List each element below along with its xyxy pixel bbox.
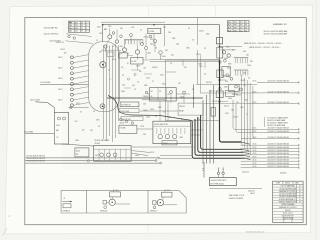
svg-text:281: 281 [240, 22, 243, 24]
wire [204, 61, 206, 68]
wire [137, 45, 139, 50]
wire [107, 201, 110, 203]
wire end tick [298, 147, 300, 149]
svg-text:28-151: 28-151 [60, 49, 65, 51]
svg-text:2815: 2815 [234, 30, 238, 32]
svg-text:28-1: 28-1 [75, 121, 78, 123]
svg-text:28-152: 28-152 [196, 54, 201, 56]
svg-text:WD-52G 4014-511 AIRPLANE: WD-52G 4014-511 AIRPLANE [264, 32, 288, 35]
svg-text:ASSEMBLY NO: ASSEMBLY NO [273, 23, 287, 26]
terminal [224, 59, 227, 62]
svg-text:28-15: 28-15 [58, 89, 62, 91]
table rule [84, 21, 86, 32]
svg-text:28-1524 TO 28-406 GEN-28: 28-1524 TO 28-406 GEN-28 [268, 156, 289, 158]
terminal [134, 73, 136, 75]
connector bar [234, 57, 248, 59]
drop wire [200, 55, 202, 93]
wire [140, 110, 178, 112]
svg-text:28: 28 [245, 22, 247, 24]
relay K2 [131, 58, 143, 64]
svg-text:28: 28 [192, 89, 194, 91]
splice box [162, 141, 177, 145]
wire [106, 39, 110, 45]
title rule [273, 205, 304, 207]
pin [184, 128, 186, 134]
svg-text:28: 28 [245, 25, 247, 27]
divider [94, 148, 131, 150]
svg-text:281: 281 [240, 28, 243, 30]
fan wire [73, 55, 89, 58]
motor M1 [100, 62, 106, 68]
scanner streak [315, 0, 317, 240]
svg-text:28-15: 28-15 [253, 147, 257, 149]
terminal [170, 91, 173, 94]
svg-text:28-1525 TO 28-406 GEN-28: 28-1525 TO 28-406 GEN-28 [268, 160, 289, 162]
drop wire [209, 90, 211, 164]
svg-text:2840: 2840 [206, 34, 210, 36]
terminal [73, 37, 75, 39]
svg-text:28-1520 TO 28-406 GEN-28: 28-1520 TO 28-406 GEN-28 [268, 137, 289, 139]
title rule [292, 181, 294, 184]
pin [237, 58, 239, 64]
connector bar [234, 69, 248, 71]
junction [219, 46, 221, 48]
wire [118, 52, 124, 55]
svg-text:28-40: 28-40 [147, 53, 151, 55]
terminal [226, 74, 229, 77]
wire drop [102, 25, 104, 42]
terminal T8 [70, 93, 73, 96]
bus wire [105, 45, 107, 141]
svg-text:284: 284 [250, 61, 253, 63]
pin [172, 128, 174, 134]
svg-text:28-4021-511 AIRPL: 28-4021-511 AIRPL [229, 197, 244, 200]
divider [109, 149, 111, 161]
svg-text:28-402: 28-402 [233, 117, 238, 119]
svg-text:28-4: 28-4 [176, 44, 179, 46]
terminal [141, 43, 144, 46]
wire [145, 34, 147, 47]
wire end tick [298, 157, 300, 159]
wire [131, 146, 194, 148]
relay K6 [222, 66, 230, 76]
svg-text:281: 281 [236, 102, 239, 104]
terminal [159, 51, 163, 55]
svg-text:28-1511 BAT SW: 28-1511 BAT SW [44, 27, 58, 30]
cell terminal [63, 117, 66, 120]
svg-text:28-15: 28-15 [253, 163, 257, 165]
table rule [228, 22, 249, 24]
pin [242, 70, 244, 76]
wire [167, 101, 169, 121]
svg-text:2840: 2840 [144, 85, 148, 87]
motor detail B [109, 199, 115, 205]
terminal [240, 88, 243, 91]
wire end tick [298, 131, 300, 133]
table rule [69, 29, 90, 31]
svg-text:28-40: 28-40 [75, 140, 79, 142]
motor M2 shaft [102, 106, 104, 108]
inline label box [119, 109, 139, 113]
svg-text:28: 28 [127, 63, 129, 65]
svg-text:28-4: 28-4 [132, 85, 135, 87]
svg-text:281: 281 [75, 22, 78, 24]
title rule [273, 186, 304, 188]
wire end tick [298, 144, 300, 146]
wire [137, 54, 139, 59]
curved feeder [108, 96, 192, 121]
wire [170, 93, 172, 103]
connector pin [125, 40, 127, 45]
list wire [241, 157, 299, 159]
list wire [241, 147, 299, 149]
svg-text:28: 28 [204, 74, 206, 76]
wire [40, 84, 89, 86]
svg-text:WIRE 28-1514 -- 28-1516 -- 28-: WIRE 28-1514 -- 28-1516 -- 28-1518 -- 28… [244, 43, 283, 45]
svg-text:28-40: 28-40 [224, 58, 228, 60]
feeder wire [250, 83, 252, 155]
svg-text:28-1: 28-1 [90, 130, 93, 132]
list wire [251, 92, 299, 94]
svg-text:28-15: 28-15 [253, 102, 257, 104]
wire end tick [298, 166, 300, 168]
trunk tap [219, 101, 221, 103]
strip divider [147, 190, 149, 213]
svg-text:28-15: 28-15 [253, 137, 257, 139]
svg-text:28-15: 28-15 [112, 59, 116, 61]
svg-text:284: 284 [165, 50, 168, 52]
svg-text:2840: 2840 [172, 38, 176, 40]
terminal [145, 47, 148, 50]
svg-text:28-40: 28-40 [121, 91, 125, 93]
list wire [241, 144, 299, 146]
title rule [273, 202, 304, 204]
note bracket [264, 117, 266, 127]
table rule [243, 21, 245, 32]
wire [116, 30, 118, 40]
title rule [273, 194, 304, 196]
svg-text:28-152: 28-152 [224, 106, 229, 108]
pin [168, 128, 170, 134]
svg-text:EXT PWR 28-402: EXT PWR 28-402 [211, 183, 224, 185]
wire end tick [298, 137, 300, 139]
svg-text:2840: 2840 [180, 137, 184, 139]
connector pin [136, 40, 138, 45]
svg-text:28-1514 GEN: 28-1514 GEN [41, 82, 52, 84]
terminal T10 [70, 104, 73, 107]
svg-text:28: 28 [80, 112, 82, 114]
contact [158, 134, 162, 138]
detail B relay [110, 192, 121, 197]
relay K1 [148, 28, 161, 33]
terminal [235, 85, 238, 88]
wire [115, 203, 130, 205]
junction [193, 97, 195, 99]
wire [191, 134, 200, 136]
svg-text:28-15: 28-15 [253, 91, 257, 93]
wire [164, 204, 178, 206]
contact [107, 153, 111, 157]
wire to frame [25, 132, 54, 134]
svg-text:28-1: 28-1 [116, 190, 119, 192]
svg-text:28-1516: 28-1516 [212, 101, 218, 103]
pin [164, 128, 166, 134]
svg-text:28-40: 28-40 [247, 65, 251, 67]
tap wire [220, 79, 227, 81]
wire [127, 54, 133, 56]
fan wire [73, 81, 89, 84]
svg-text:28-15: 28-15 [58, 78, 62, 80]
svg-text:28-4021-501 AIRPLANE: 28-4021-501 AIRPLANE [267, 119, 286, 122]
svg-text:28: 28 [96, 40, 98, 42]
svg-text:2840: 2840 [240, 107, 244, 109]
svg-text:28-4021-5: 28-4021-5 [242, 172, 249, 174]
svg-text:28-4021 FLD: 28-4021 FLD [122, 119, 132, 121]
heavy trunk bus [220, 60, 242, 142]
terminal [153, 206, 156, 209]
divider [103, 149, 105, 161]
list wire left ext [196, 83, 257, 85]
relay K4 [119, 125, 137, 133]
svg-text:2840: 2840 [199, 66, 203, 68]
drop wire [197, 50, 199, 84]
terminal [115, 40, 118, 43]
pin [234, 70, 236, 76]
svg-text:28-402: 28-402 [236, 95, 241, 97]
svg-text:28: 28 [81, 25, 83, 27]
pin [247, 70, 249, 76]
tap wire [220, 101, 229, 103]
wire end tick [298, 154, 300, 156]
svg-text:28: 28 [232, 50, 234, 52]
svg-text:28: 28 [152, 81, 154, 83]
svg-text:28-15: 28-15 [253, 131, 257, 133]
terminal [145, 91, 148, 94]
terminal [149, 35, 152, 38]
wire [159, 101, 161, 121]
divider [153, 125, 191, 127]
wire [160, 54, 162, 60]
svg-text:28-15: 28-15 [99, 33, 103, 35]
terminal [68, 35, 70, 37]
svg-text:28-15: 28-15 [97, 27, 101, 29]
svg-text:281: 281 [228, 77, 231, 79]
detail C relay [162, 192, 173, 197]
wire [147, 93, 150, 95]
wire [109, 28, 111, 35]
drop wire [222, 168, 224, 173]
svg-text:28-15: 28-15 [146, 78, 150, 80]
terminal T2 [70, 61, 73, 64]
svg-text:28-1522 TO 28-406 GEN-28: 28-1522 TO 28-406 GEN-28 [268, 150, 289, 152]
relay K8 [226, 91, 235, 97]
motor detail C [157, 199, 163, 205]
relay on trunk [216, 38, 222, 44]
bus bend [243, 152, 250, 153]
svg-text:DETAIL A: DETAIL A [63, 210, 71, 213]
feeder wire [233, 100, 243, 129]
connector lug [222, 172, 224, 174]
svg-text:281: 281 [163, 27, 166, 29]
svg-text:28: 28 [246, 114, 248, 116]
svg-text:28-4: 28-4 [122, 85, 125, 87]
wire [111, 197, 113, 199]
table rule [232, 21, 234, 32]
list wire [241, 160, 299, 162]
bus wire [108, 45, 110, 136]
drop wire [193, 84, 195, 108]
feeder wire [35, 102, 54, 113]
svg-text:28-1514: 28-1514 [206, 82, 212, 84]
wire end tick [298, 102, 300, 104]
svg-text:2815: 2815 [226, 47, 230, 49]
svg-text:281: 281 [75, 31, 78, 33]
svg-text:28: 28 [122, 75, 124, 77]
bus bend [242, 149, 249, 151]
leader wire [68, 28, 91, 30]
relay K7 [229, 84, 239, 91]
drop wire [203, 162, 205, 178]
connector pin [142, 40, 144, 45]
svg-text:28-4021: 28-4021 [179, 106, 185, 108]
divider [125, 149, 127, 161]
revision table [228, 21, 249, 32]
svg-text:281: 281 [139, 71, 142, 73]
trunk wire upper [219, 25, 221, 60]
svg-text:28: 28 [108, 70, 110, 72]
svg-text:28-40: 28-40 [150, 109, 154, 111]
terminal [120, 35, 123, 38]
svg-text:A28: A28 [228, 27, 231, 30]
svg-text:4: 4 [86, 25, 87, 27]
svg-text:2-8: 2-8 [121, 67, 123, 69]
terminal [222, 51, 225, 54]
title rule [296, 184, 298, 203]
pin [247, 58, 249, 64]
svg-text:2815: 2815 [108, 26, 112, 28]
terminal [219, 61, 221, 63]
wire [142, 99, 166, 101]
list wire [241, 151, 299, 153]
svg-text:28-40: 28-40 [136, 66, 140, 68]
svg-text:28: 28 [93, 111, 95, 113]
svg-text:B-52G 4-62-15: B-52G 4-62-15 [283, 213, 293, 215]
svg-text:28-15: 28-15 [95, 155, 99, 157]
svg-text:28-1515 GEN: 28-1515 GEN [30, 100, 41, 102]
junction [153, 24, 155, 26]
svg-text:28-15: 28-15 [58, 57, 62, 59]
svg-text:2815: 2815 [96, 120, 100, 122]
tick [202, 170, 204, 172]
drop wire [202, 100, 204, 164]
svg-text:28: 28 [134, 89, 136, 91]
terminal T3 [70, 67, 73, 70]
svg-text:GEN: GEN [228, 64, 231, 66]
wire [176, 93, 190, 95]
title rule [282, 181, 284, 184]
svg-text:28: 28 [192, 40, 194, 42]
wire [124, 40, 126, 48]
list wire [247, 103, 299, 105]
resistor R2 [107, 52, 114, 56]
svg-text:2840: 2840 [158, 107, 162, 109]
svg-text:2815: 2815 [234, 25, 238, 27]
wire [222, 175, 224, 178]
fan wire [73, 71, 89, 74]
svg-text:28-4: 28-4 [243, 73, 246, 75]
wire [69, 107, 89, 109]
terminal [104, 45, 107, 48]
svg-text:28-15: 28-15 [253, 128, 257, 130]
drop wire [213, 85, 215, 164]
wire end tick [298, 163, 300, 165]
wire under box [209, 187, 262, 189]
list wire [243, 131, 299, 133]
table rule [69, 23, 90, 25]
title rule [273, 199, 304, 201]
svg-text:28: 28 [204, 48, 206, 50]
svg-text:28-4: 28-4 [168, 32, 171, 34]
crease [147, 225, 149, 233]
svg-text:DETAIL B: DETAIL B [100, 210, 108, 213]
pin [244, 70, 246, 76]
bus wire [102, 45, 104, 139]
title rule [273, 208, 304, 210]
svg-text:A28: A28 [228, 24, 231, 27]
cable loop outline [89, 42, 120, 112]
pin [180, 128, 182, 134]
title rule [273, 183, 304, 185]
svg-text:28-40: 28-40 [228, 98, 232, 100]
pin [242, 58, 244, 64]
svg-text:28-4: 28-4 [225, 81, 228, 83]
svg-text:28-15: 28-15 [253, 160, 257, 162]
fan wire [73, 97, 89, 100]
svg-text:WIRE 28-1515 -- 28-1517 -- 28-: WIRE 28-1515 -- 28-1517 -- 28-1519 -- [249, 47, 280, 49]
detail C contact [153, 201, 157, 205]
svg-text:28-40: 28-40 [135, 155, 139, 157]
svg-text:284: 284 [64, 53, 67, 55]
svg-text:28-40: 28-40 [56, 125, 60, 127]
title rule [273, 192, 304, 194]
svg-text:28-4: 28-4 [150, 39, 153, 41]
svg-text:28: 28 [155, 48, 157, 50]
svg-text:28-1: 28-1 [167, 190, 170, 192]
svg-text:B-52G 28-4021-13: B-52G 28-4021-13 [246, 231, 265, 233]
terminal [70, 107, 72, 109]
breaker CB1 [135, 50, 139, 54]
junction [102, 24, 104, 26]
motor dot [112, 202, 113, 203]
svg-text:28-15: 28-15 [227, 68, 231, 70]
svg-text:2840: 2840 [224, 87, 228, 89]
svg-text:28-15: 28-15 [253, 156, 257, 158]
pin [239, 58, 241, 64]
lug [160, 162, 162, 164]
fan wire [73, 87, 89, 90]
svg-text:28-1527 TO 28-406 GEN-28: 28-1527 TO 28-406 GEN-28 [268, 166, 289, 168]
svg-text:281: 281 [75, 25, 78, 27]
svg-text:A28: A28 [228, 21, 231, 24]
svg-text:28-1514 TO 28-406 GEN-28: 28-1514 TO 28-406 GEN-28 [268, 81, 289, 83]
title rule [291, 217, 293, 222]
svg-text:4: 4 [86, 31, 87, 33]
svg-text:28: 28 [248, 78, 250, 80]
svg-text:TO 28: TO 28 [140, 126, 144, 128]
bus feed [160, 154, 193, 156]
svg-text:284: 284 [143, 134, 146, 136]
heavy bus elbow [192, 121, 245, 158]
